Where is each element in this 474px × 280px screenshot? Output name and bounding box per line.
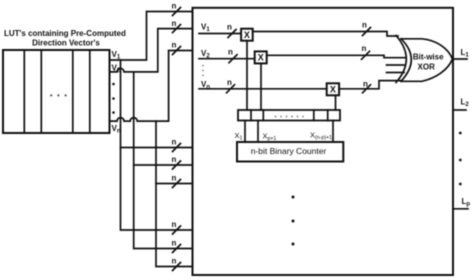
svg-text:X: X [244, 30, 250, 40]
svg-text:n: n [172, 239, 177, 248]
svg-text:n-bit Binary Counter: n-bit Binary Counter [251, 146, 327, 156]
svg-text:X: X [330, 85, 336, 95]
svg-text:n: n [228, 48, 233, 57]
svg-text:n: n [172, 155, 177, 164]
svg-text:n: n [172, 19, 177, 28]
svg-text:n: n [172, 220, 177, 229]
svg-text:n: n [172, 257, 177, 266]
svg-text:n: n [172, 2, 177, 11]
svg-text:X: X [258, 53, 264, 63]
svg-text:Bit-wise: Bit-wise [413, 52, 444, 61]
svg-text:n: n [363, 80, 368, 89]
svg-text:n: n [362, 21, 367, 30]
svg-text:LUT's containing Pre-Computed: LUT's containing Pre-Computed [4, 29, 126, 38]
svg-text:n: n [172, 41, 177, 50]
svg-text:n: n [227, 78, 232, 87]
svg-text:n: n [172, 174, 177, 183]
svg-text:n: n [362, 44, 367, 53]
svg-text:XOR: XOR [418, 62, 436, 71]
svg-text:Direction Vector's: Direction Vector's [32, 38, 100, 47]
svg-text:n: n [172, 138, 177, 147]
svg-text:n: n [227, 23, 232, 32]
